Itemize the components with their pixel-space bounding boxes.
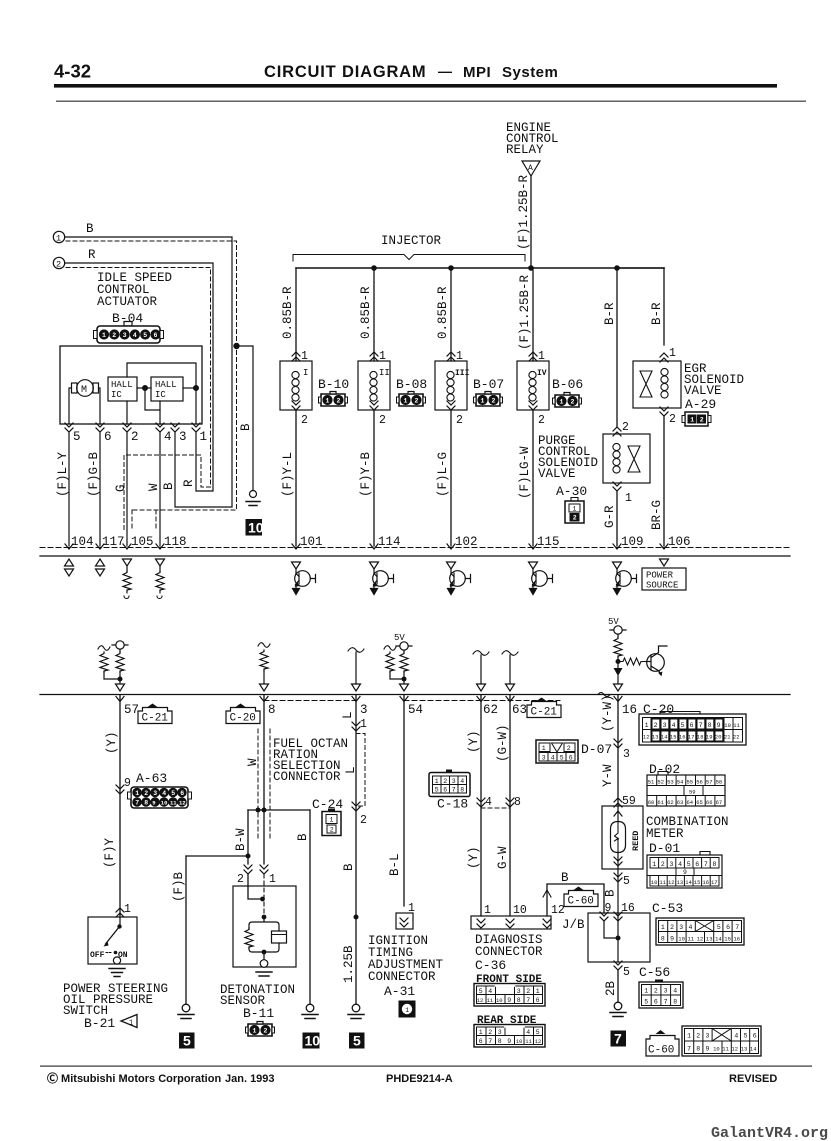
- ground (F)B: [178, 1004, 194, 1018]
- svg-text:5: 5: [717, 924, 721, 931]
- svg-text:2: 2: [379, 414, 386, 427]
- svg-text:A: A: [528, 164, 533, 173]
- JB internal wires: [604, 913, 618, 962]
- svg-text:5: 5: [435, 787, 439, 794]
- svg-text:64: 64: [687, 799, 694, 806]
- chevron 3 on wire 16: [614, 739, 622, 748]
- svg-text:(F)B: (F)B: [172, 871, 186, 902]
- pin 1 chevron inj2: [370, 352, 378, 361]
- chevron below bus 54: [400, 697, 408, 702]
- coil purge: [613, 443, 620, 473]
- junction dot wire 3: [354, 915, 359, 920]
- terminal chevron 104: [65, 544, 73, 549]
- svg-text:5: 5: [687, 861, 691, 868]
- ECU top dashed boundary (upper section): [40, 547, 790, 549]
- svg-text:C-36: C-36: [475, 958, 506, 973]
- connector icon B-10: [319, 392, 348, 407]
- input triangle pair at 117: [96, 559, 105, 566]
- wire 16 column upper: [617, 695, 619, 806]
- svg-text:6: 6: [536, 997, 540, 1004]
- internal wire hall1-top loop to node: [127, 363, 196, 388]
- reed contact blades: [615, 822, 619, 853]
- chevron 5 below JB: [614, 961, 622, 970]
- svg-text:3: 3: [517, 988, 521, 995]
- svg-text:VALVE: VALVE: [684, 384, 722, 398]
- B jumper wire 12 to JB: [547, 884, 604, 916]
- shield dashed stub at wire G: [131, 510, 133, 531]
- svg-text:2: 2: [567, 745, 571, 752]
- motor lead right: [99, 388, 101, 424]
- svg-text:2: 2: [696, 1033, 700, 1040]
- sensor top node dot: [262, 915, 267, 920]
- coil inj1: [292, 371, 299, 401]
- svg-text:4-32: 4-32: [54, 61, 91, 82]
- shield drain wire B to pin 10: [237, 346, 254, 490]
- svg-text:(F)L-G: (F)L-G: [436, 452, 450, 497]
- hall IC 2 box: [151, 377, 183, 401]
- pin 1 chevron EGR top: [660, 353, 668, 362]
- pin 2 chevron EGR bottom: [660, 407, 668, 416]
- svg-text:4: 4: [526, 1029, 530, 1036]
- wire EGR lower BR-G: [663, 416, 665, 546]
- svg-text:1: 1: [484, 904, 491, 917]
- wire inj4 lower: [532, 410, 534, 546]
- svg-text:1: 1: [129, 1020, 133, 1028]
- svg-text:(F)Y-B: (F)Y-B: [359, 451, 373, 497]
- svg-text:2: 2: [237, 873, 244, 886]
- wire 2B to ground: [617, 970, 619, 1002]
- svg-text:12: 12: [179, 799, 186, 806]
- svg-text:Jan. 1993: Jan. 1993: [225, 1073, 275, 1085]
- parallel resistor bottom bend at 54: [390, 672, 402, 679]
- svg-text:13: 13: [677, 879, 684, 886]
- svg-text:1: 1: [644, 988, 648, 995]
- svg-text:57: 57: [124, 703, 139, 717]
- svg-text:B-08: B-08: [396, 377, 427, 392]
- svg-text:8: 8: [498, 1038, 502, 1045]
- svg-text:IC: IC: [155, 390, 166, 400]
- connector icon A-30: [565, 498, 584, 524]
- svg-text:22: 22: [733, 734, 740, 741]
- svg-text:PHDE9214-A: PHDE9214-A: [386, 1073, 453, 1085]
- svg-text:7: 7: [699, 722, 703, 729]
- svg-text:B-10: B-10: [318, 377, 349, 392]
- svg-text:3: 3: [179, 430, 187, 444]
- svg-text:10: 10: [651, 879, 658, 886]
- sensor ground bars: [256, 972, 272, 976]
- reed contact pill: [611, 822, 626, 853]
- svg-text:(F)1.25B-R: (F)1.25B-R: [518, 274, 532, 350]
- pullup resistor right at 54: [400, 652, 408, 672]
- header thick rule: [54, 84, 777, 88]
- svg-text:1: 1: [56, 234, 61, 244]
- svg-text:63: 63: [512, 703, 527, 717]
- svg-text:12: 12: [668, 879, 675, 886]
- svg-text:(F)L-Y: (F)L-Y: [56, 451, 70, 497]
- svg-text:J/B: J/B: [562, 918, 585, 932]
- ground B wire: [302, 1004, 318, 1018]
- svg-text:B-W: B-W: [234, 828, 248, 851]
- wire B to ground 10: [309, 810, 311, 1004]
- svg-text:1.25B: 1.25B: [342, 945, 356, 983]
- terminal chevron 105: [123, 544, 131, 549]
- svg-text:CONNECTOR: CONNECTOR: [273, 770, 341, 784]
- svg-text:D-01: D-01: [649, 841, 680, 856]
- svg-text:13: 13: [741, 1046, 748, 1053]
- svg-text:65: 65: [696, 799, 703, 806]
- bus continuation squiggle: [598, 693, 610, 697]
- sensor internal resistor: [245, 928, 253, 948]
- pin chevron 3: [171, 423, 179, 432]
- svg-text:B-06: B-06: [552, 377, 583, 392]
- svg-text:11: 11: [659, 879, 666, 886]
- chevron 8 on wire 63: [506, 798, 514, 807]
- internal wire node between halls down to pin 4: [145, 388, 160, 410]
- stub wire at 3 with squiggle top: [348, 648, 364, 653]
- svg-text:REVISED: REVISED: [729, 1073, 777, 1085]
- svg-text:System: System: [502, 64, 558, 81]
- svg-text:7: 7: [704, 861, 708, 868]
- svg-text:3: 3: [679, 924, 683, 931]
- lead and arrow to bus at 54: [403, 672, 405, 683]
- svg-text:6: 6: [654, 999, 658, 1006]
- svg-text:C-21: C-21: [531, 707, 558, 719]
- svg-text:1: 1: [645, 722, 649, 729]
- junction block box: [588, 913, 650, 962]
- svg-text:62: 62: [667, 799, 674, 806]
- svg-text:5: 5: [744, 1033, 748, 1040]
- pin 2 chevron detonation: [244, 865, 252, 874]
- parallel resistor curl top at 54: [384, 646, 396, 651]
- switch pivot dot: [117, 924, 121, 928]
- svg-text:G-W: G-W: [496, 846, 510, 869]
- pin 2 chevron inj1: [292, 401, 300, 410]
- chevron below bus 63: [506, 697, 514, 702]
- wire 2 into sensor: [248, 874, 261, 899]
- pin chevron 5: [65, 423, 73, 432]
- svg-text:8: 8: [460, 787, 464, 794]
- svg-text:W: W: [246, 758, 260, 766]
- svg-text:HALL: HALL: [155, 380, 177, 390]
- chevron 12 into diag: [543, 919, 551, 928]
- svg-text:11: 11: [170, 799, 177, 806]
- injector IV box: [517, 361, 549, 410]
- switch ground contact circle: [113, 957, 120, 964]
- junction dot at 57: [118, 677, 123, 682]
- svg-text:9: 9: [507, 997, 511, 1004]
- svg-text:10: 10: [713, 1046, 720, 1053]
- connector icon D-02: [647, 772, 725, 807]
- svg-text:G-R: G-R: [603, 505, 617, 528]
- svg-text:102: 102: [455, 535, 478, 549]
- svg-text:SOURCE: SOURCE: [646, 581, 678, 591]
- svg-text:B-R: B-R: [650, 302, 664, 325]
- switch blade: [106, 927, 120, 945]
- svg-text:3: 3: [498, 1029, 502, 1036]
- arrow inside A-31 box: [400, 918, 408, 927]
- sensor piezo element: [272, 931, 287, 943]
- svg-text:10: 10: [724, 722, 731, 729]
- ECU pin 5 black box mid: [349, 1033, 365, 1049]
- junction hall1-hall2: [143, 386, 148, 391]
- chevron below bus 62: [477, 697, 485, 702]
- detonation sensor box: [233, 886, 296, 967]
- svg-text:4: 4: [162, 790, 166, 797]
- connector icon C-20 22pin: [639, 712, 746, 746]
- ECU pin 7 black box: [611, 1031, 627, 1047]
- svg-text:2: 2: [573, 515, 577, 522]
- injector I box: [280, 361, 312, 410]
- coil inj4: [529, 371, 536, 401]
- svg-text:7: 7: [488, 1038, 492, 1045]
- svg-text:16: 16: [622, 703, 637, 717]
- chevron 9 into JB: [600, 912, 608, 921]
- svg-text:7: 7: [735, 924, 739, 931]
- svg-text:(F)Y: (F)Y: [103, 837, 117, 868]
- svg-text:9: 9: [507, 1038, 511, 1045]
- svg-text:GalantVR4.org: GalantVR4.org: [711, 1125, 828, 1141]
- pin 4 lead: [159, 401, 161, 424]
- diagnosis connector box: [471, 916, 551, 929]
- svg-text:6: 6: [695, 861, 699, 868]
- chevron below bus 3: [352, 697, 360, 702]
- junction dot (F)B branch: [246, 854, 251, 859]
- ECU bottom solid boundary (lower section): [40, 694, 790, 696]
- svg-text:4: 4: [678, 861, 682, 868]
- svg-text:2: 2: [700, 417, 704, 424]
- wire R from node 2: [65, 263, 213, 491]
- stub wire at 63 with squiggle top: [502, 651, 518, 656]
- svg-text:2: 2: [360, 814, 367, 827]
- svg-text:3: 3: [664, 988, 668, 995]
- svg-text:118: 118: [164, 535, 187, 549]
- svg-text:20: 20: [715, 734, 722, 741]
- svg-text:56: 56: [696, 779, 703, 786]
- svg-text:Ⓒ Mitsubishi Motors Corporatio: Ⓒ Mitsubishi Motors Corporation: [47, 1071, 221, 1085]
- connector icon B-06: [553, 393, 582, 408]
- svg-text:4: 4: [488, 988, 492, 995]
- svg-text:1: 1: [687, 1033, 691, 1040]
- svg-text:B-R: B-R: [603, 302, 617, 325]
- svg-text:1: 1: [538, 350, 545, 363]
- svg-text:1: 1: [456, 350, 463, 363]
- terminal chevron 109: [613, 544, 621, 549]
- svg-text:6: 6: [753, 1033, 757, 1040]
- bus junction dot inj3: [448, 265, 454, 271]
- reed switch box: [602, 806, 643, 869]
- coil EGR: [661, 368, 668, 398]
- svg-text:9: 9: [706, 1046, 710, 1053]
- svg-text:B: B: [239, 423, 253, 431]
- switch ground bars: [109, 969, 125, 977]
- wire 54 column: [403, 695, 405, 906]
- svg-text:2: 2: [131, 430, 139, 444]
- svg-text:5: 5: [681, 722, 685, 729]
- junction dot at 54: [402, 677, 407, 682]
- svg-text:5: 5: [183, 1033, 191, 1049]
- svg-text:60: 60: [648, 799, 655, 806]
- shield drain junction dot: [234, 343, 239, 348]
- ECU top solid boundary (upper section): [40, 555, 790, 557]
- svg-text:1: 1: [669, 347, 676, 360]
- bus junction dot purge: [614, 265, 620, 271]
- terminal chevron 102: [447, 544, 455, 549]
- svg-text:67: 67: [716, 799, 723, 806]
- svg-text:1: 1: [405, 1007, 409, 1014]
- svg-text:R: R: [88, 248, 96, 262]
- svg-text:5: 5: [353, 1033, 361, 1049]
- svg-text:2: 2: [330, 827, 334, 834]
- coil inj2: [370, 371, 377, 401]
- chevron 4 on wire 62: [477, 798, 485, 807]
- pullup resistor right at 57: [116, 652, 124, 672]
- svg-text:1: 1: [360, 718, 367, 731]
- connector icon C-36 front: [474, 984, 545, 1007]
- pin chevron 1: [192, 423, 200, 432]
- svg-text:C-56: C-56: [639, 965, 670, 980]
- svg-text:7: 7: [526, 997, 530, 1004]
- driver transistor at 115: [529, 562, 553, 595]
- boxed label C-21 right: [527, 698, 561, 718]
- svg-text:B-07: B-07: [473, 377, 504, 392]
- stub wire at 62 with squiggle top: [473, 651, 489, 656]
- octane selector dashed bypass: [356, 734, 365, 807]
- wire from relay to bus: [530, 176, 532, 268]
- sensor bottom node dot: [262, 950, 267, 955]
- svg-text:M: M: [81, 385, 87, 396]
- svg-text:10: 10: [678, 936, 685, 943]
- svg-text:2: 2: [670, 924, 674, 931]
- svg-text:VALVE: VALVE: [538, 467, 576, 481]
- svg-text:52: 52: [657, 779, 664, 786]
- svg-text:14: 14: [661, 734, 668, 741]
- svg-text:HALL: HALL: [111, 380, 133, 390]
- svg-text:4: 4: [734, 1033, 738, 1040]
- svg-text:2: 2: [301, 414, 308, 427]
- supply circle at 54: [396, 642, 412, 652]
- svg-text:(G-W): (G-W): [496, 724, 510, 762]
- JB junction dot: [616, 936, 621, 941]
- svg-text:14: 14: [685, 879, 692, 886]
- svg-text:15: 15: [670, 734, 677, 741]
- chevron 1 into diag: [477, 919, 485, 928]
- bus junction dot inj2: [371, 265, 377, 271]
- svg-text:(F)G-B: (F)G-B: [87, 451, 101, 497]
- bus corner to EGR: [617, 267, 664, 269]
- wire 62 column: [480, 695, 482, 916]
- pullup stack at 57: supply circle: [112, 641, 128, 652]
- svg-text:5: 5: [623, 875, 630, 888]
- svg-text:6: 6: [726, 924, 730, 931]
- svg-text:B: B: [342, 863, 356, 871]
- svg-text:13: 13: [652, 734, 659, 741]
- svg-text:5: 5: [623, 966, 630, 979]
- svg-text:2: 2: [669, 413, 676, 426]
- power source box: [642, 568, 686, 590]
- svg-text:10: 10: [161, 799, 168, 806]
- svg-text:7: 7: [687, 1046, 691, 1053]
- pin 1 chevron inj3: [447, 352, 455, 361]
- svg-text:2: 2: [144, 790, 148, 797]
- svg-text:62: 62: [483, 703, 498, 717]
- parallel resistor bottom bend at 57: [104, 672, 118, 679]
- svg-text:C-24: C-24: [312, 797, 343, 812]
- B-W horizontal wire: [248, 809, 310, 811]
- svg-text:B: B: [162, 482, 176, 490]
- svg-text:C-60: C-60: [648, 1045, 674, 1057]
- wire pin5 down to ECU: [68, 432, 70, 546]
- svg-text:MPI: MPI: [463, 64, 491, 81]
- svg-text:12: 12: [551, 904, 565, 917]
- svg-text:1: 1: [269, 873, 276, 886]
- svg-text:57: 57: [706, 779, 713, 786]
- header thin rule: [56, 101, 806, 102]
- svg-text:16: 16: [679, 734, 686, 741]
- wire 3 column: [355, 695, 357, 1004]
- (F)B branch horizontal: [186, 855, 248, 857]
- svg-text:51: 51: [648, 779, 655, 786]
- shield drain termination bars: [246, 502, 260, 506]
- svg-text:0.85B-R: 0.85B-R: [436, 286, 450, 339]
- wire through reed box: [617, 806, 619, 822]
- junction dot wire 8 at B-W: [262, 808, 267, 813]
- connector icon B-07: [474, 392, 503, 407]
- svg-text:11: 11: [722, 1046, 729, 1053]
- chevron below bus 8: [260, 697, 268, 702]
- svg-text:3: 3: [623, 748, 630, 761]
- chevron below bus 16: [614, 697, 622, 702]
- svg-text:16: 16: [734, 936, 741, 943]
- svg-text:11: 11: [688, 936, 695, 943]
- svg-text:1: 1: [102, 332, 106, 339]
- svg-text:1: 1: [479, 1029, 483, 1036]
- junction hall2 right: [194, 386, 199, 391]
- pin 1 chevron inj1: [292, 352, 300, 361]
- svg-text:8: 8: [517, 997, 521, 1004]
- svg-text:(F)Y-L: (F)Y-L: [281, 452, 295, 497]
- svg-text:5: 5: [536, 1029, 540, 1036]
- svg-text:5: 5: [73, 430, 81, 444]
- hall IC 1 box: [108, 377, 137, 401]
- chevron 16 into JB: [614, 912, 622, 921]
- pullup resistor at 118: [156, 559, 165, 566]
- series resistor to transistor base: [621, 658, 646, 665]
- svg-text:B: B: [86, 222, 94, 236]
- svg-text:L: L: [344, 766, 358, 774]
- svg-text:115: 115: [537, 535, 560, 549]
- svg-text:3: 3: [670, 861, 674, 868]
- terminal chevron 106: [660, 544, 668, 549]
- pin 1 chevron inj4: [529, 352, 537, 361]
- wire inj1 lower: [295, 410, 297, 546]
- pin 1 chevron octane connector: [352, 722, 360, 731]
- svg-text:11: 11: [733, 722, 740, 729]
- svg-text:I: I: [303, 368, 308, 378]
- svg-text:6: 6: [479, 1038, 483, 1045]
- svg-text:1: 1: [135, 790, 139, 797]
- driver transistor at 114: [370, 562, 394, 595]
- motor brush left: [72, 383, 78, 393]
- wire 63 column: [509, 695, 511, 916]
- pullup resistor at 16: [614, 637, 622, 657]
- svg-text:18: 18: [697, 734, 704, 741]
- svg-text:(Y): (Y): [105, 731, 119, 754]
- chevron below bus 57: [116, 697, 124, 702]
- wire purge lower G-R: [616, 491, 618, 546]
- connector icon C-18: [429, 770, 470, 797]
- svg-text:4: 4: [673, 988, 677, 995]
- coil inj3: [447, 371, 454, 401]
